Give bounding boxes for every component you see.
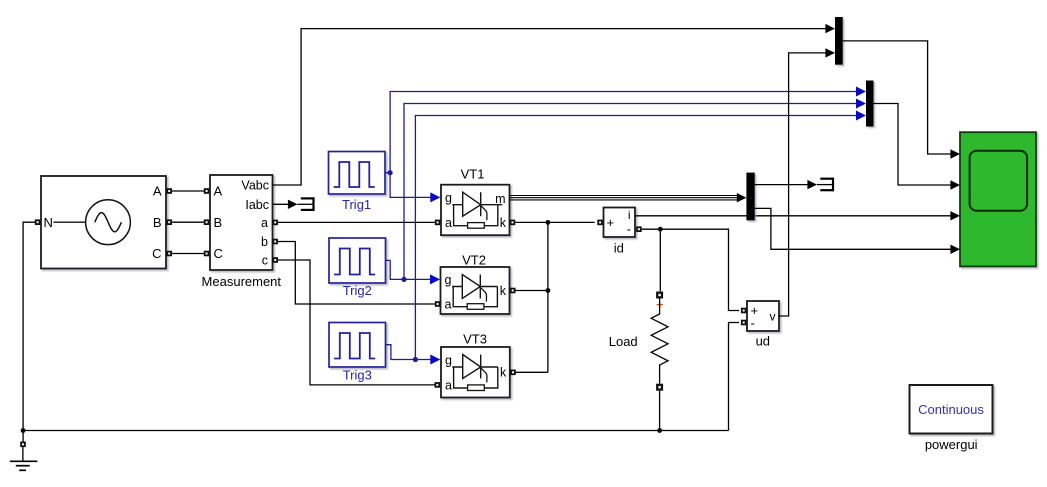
svg-text:g: g [445,353,452,367]
port load bottom [656,384,663,391]
mux M2 [866,81,874,127]
port N [35,219,41,225]
wire Iabc stub [273,203,290,205]
svg-text:B: B [153,215,162,230]
pulse generator Trig2 [329,238,386,283]
wire junction to load [659,229,661,291]
svg-text:VT1: VT1 [461,167,485,182]
port id plus [597,220,603,226]
svg-text:+: + [607,215,615,230]
port measurement C in [204,251,210,257]
svg-text:-: - [627,222,631,237]
port ud plus [741,308,747,314]
wire N to ground rail [23,222,37,430]
svg-text:-: - [751,316,755,331]
terminator T1 [298,197,314,211]
svg-text:b: b [261,235,268,249]
pulse generator Trig3 [329,323,386,368]
port measurement B in [204,219,210,225]
wire Trig1 riser to mux2 [390,92,857,173]
node load junction bottom [657,428,662,433]
wire Trig2 riser to mux2 [404,104,857,280]
wire cathode column [547,222,549,372]
port ud minus [741,320,747,326]
port measurement b out [272,239,278,245]
wire id minus to ud plus [642,229,739,310]
node load junction top [658,227,663,232]
arrow VT3 gate [430,355,440,365]
arrow scope in1 [950,149,960,158]
svg-text:Trig2: Trig2 [343,283,372,298]
demux DM1 [746,173,754,221]
svg-text:v: v [770,309,776,323]
svg-text:Iabc: Iabc [245,198,269,212]
scope [960,132,1036,266]
voltage measurement ud [747,301,779,331]
svg-text:A: A [214,184,223,199]
svg-text:Trig1: Trig1 [342,197,371,212]
svg-text:VT2: VT2 [462,253,486,268]
svg-text:a: a [261,216,268,230]
port source C [166,251,172,257]
svg-text:g: g [445,273,452,287]
port source A [166,188,172,194]
arrow mux2 in2 [856,99,866,109]
wire a to VT1 [278,221,435,223]
mux M1 [835,17,843,65]
wire VT1 k to id [515,221,594,223]
thyristor VT1 [441,185,510,236]
svg-text:i: i [628,208,631,222]
node k junction VT2 [546,288,551,293]
arrow terminator T2 [807,180,817,189]
wire ud v to mux1 [779,53,827,316]
node ground junction [21,428,26,433]
three-phase source block [41,176,166,269]
wire VT3 k to column [516,371,548,373]
arrow mux2 in1 [856,87,866,97]
arrow scope in3 [950,211,960,220]
wire demux out2 to scope [755,208,952,249]
svg-text:k: k [500,216,507,230]
wire VT1 m vector triple line [510,196,738,200]
port load top [656,292,663,299]
arrow scope in4 [950,245,960,254]
arrow demux input [737,193,747,202]
wire Vabc to mux1 [273,29,828,185]
node Trig2 junction [401,277,406,282]
port VT3 a [435,382,441,388]
port measurement A in [204,188,210,194]
wire load to bottom rail [659,391,661,431]
powergui block [910,385,993,434]
wire c to VT3 [278,260,435,385]
wire Trig1 to VT1 gate [385,173,432,198]
port measurement c out [272,257,278,263]
wire ud minus down [729,323,740,431]
source sine circle [86,200,131,245]
arrow mux1 in1 [825,24,835,33]
svg-text:C: C [152,246,161,261]
port VT1 k [510,220,516,226]
svg-text:powergui: powergui [925,437,978,452]
svg-text:a: a [445,378,452,392]
svg-text:B: B [214,215,223,230]
port id minus [636,226,642,232]
wire id i to scope [635,215,951,217]
port VT2 a [435,301,441,307]
svg-text:g: g [445,191,452,205]
arrow scope in2 [950,180,960,189]
wire mux1 to scope [843,41,952,154]
arrow mux1 in2 [825,48,835,57]
wire Trig3 to VT3 gate [386,345,432,360]
terminator T2 [817,178,833,192]
port VT1 a [435,220,441,226]
load polarity plus [657,302,663,308]
svg-text:C: C [214,246,223,261]
arrow Iabc terminator [288,200,298,209]
thyristor VT2 [441,267,510,314]
port VT2 k [510,288,516,294]
thyristor VT3 [441,347,510,398]
port VT3 k [510,370,516,376]
wire Trig2 to VT2 gate [386,260,432,279]
svg-text:a: a [445,298,452,312]
svg-text:m: m [495,192,505,206]
wire B source to measurement [172,221,204,223]
node k junction VT1 [546,220,551,225]
ground port [20,442,26,448]
wire bottom rail [23,430,728,432]
resistor Load [651,299,668,384]
svg-text:id: id [614,240,624,255]
svg-text:Vabc: Vabc [241,179,269,193]
svg-text:N: N [44,215,53,230]
svg-text:k: k [500,284,507,298]
svg-text:VT3: VT3 [463,332,487,347]
wire b to VT2 [278,242,435,305]
svg-text:Continuous: Continuous [918,402,984,417]
wire Trig3 riser to mux2 [415,116,857,360]
svg-text:Trig3: Trig3 [343,367,372,382]
ground [10,461,38,470]
wire N label to circle [54,221,86,223]
pulse generator Trig1 [329,152,386,195]
svg-text:Measurement: Measurement [202,274,282,289]
port source B [166,219,172,225]
node Trig3 junction [413,357,418,362]
node Trig1 junction [388,170,393,175]
svg-text:c: c [262,254,268,268]
port measurement a out [272,220,278,226]
svg-text:k: k [500,365,507,379]
wire VT2 k to column [515,290,548,292]
svg-text:Load: Load [609,334,638,349]
wire mux2 to scope [874,104,952,186]
measurement block [210,175,273,270]
svg-text:ud: ud [756,334,770,349]
wire demux out1 to terminator [755,184,809,186]
wire A source to measurement [172,190,204,192]
svg-text:a: a [445,216,452,230]
arrow VT1 gate [430,192,440,202]
svg-text:A: A [153,184,162,199]
arrow VT2 gate [430,274,440,284]
source sine wave [95,213,122,232]
wire ground stem [22,431,24,462]
wire C source to measurement [172,253,204,255]
current measurement id [604,208,636,238]
arrow mux2 in3 [856,111,866,121]
